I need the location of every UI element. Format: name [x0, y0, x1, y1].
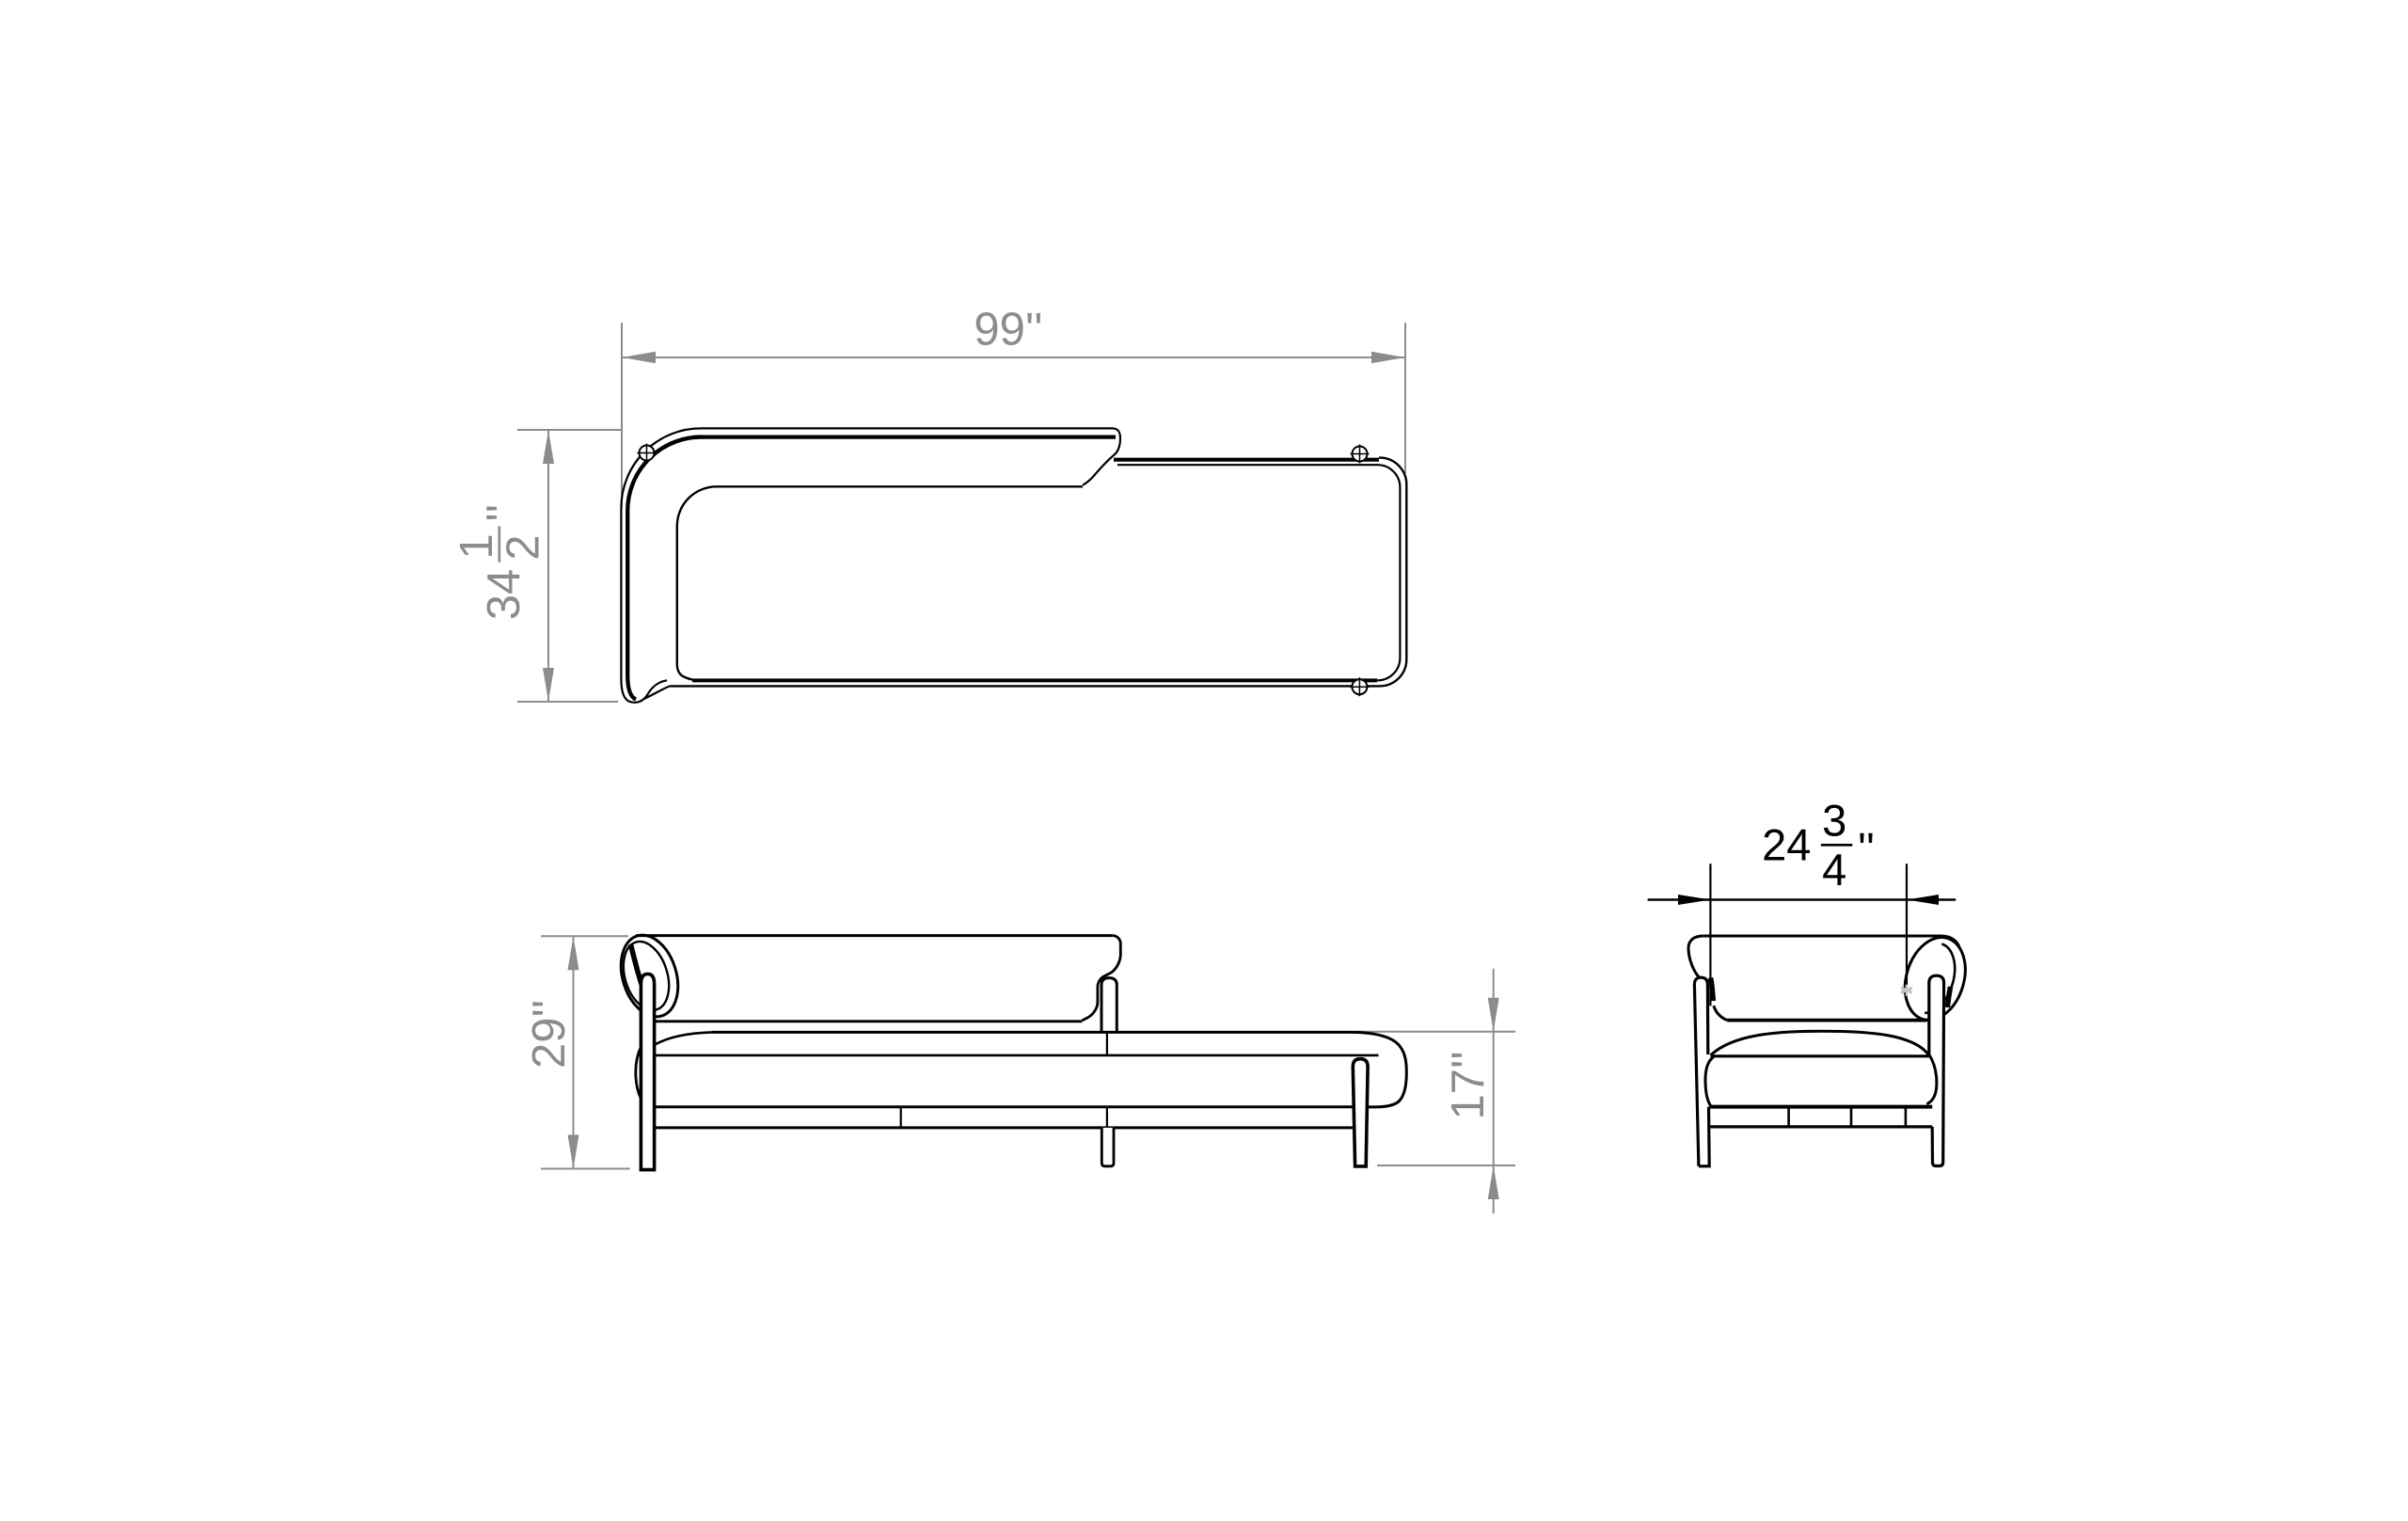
svg-text:4: 4: [1822, 845, 1846, 895]
svg-text:3: 3: [1822, 796, 1846, 846]
svg-text:24: 24: [1762, 820, 1811, 870]
svg-text:29'': 29'': [524, 1000, 575, 1069]
svg-text:1: 1: [451, 533, 502, 559]
svg-text:34: 34: [479, 569, 530, 621]
svg-text:99'': 99'': [974, 305, 1042, 356]
svg-text:2: 2: [499, 534, 549, 560]
svg-text:'': '': [1858, 823, 1875, 873]
svg-text:17'': 17'': [1443, 1051, 1494, 1119]
svg-text:'': '': [478, 504, 529, 522]
